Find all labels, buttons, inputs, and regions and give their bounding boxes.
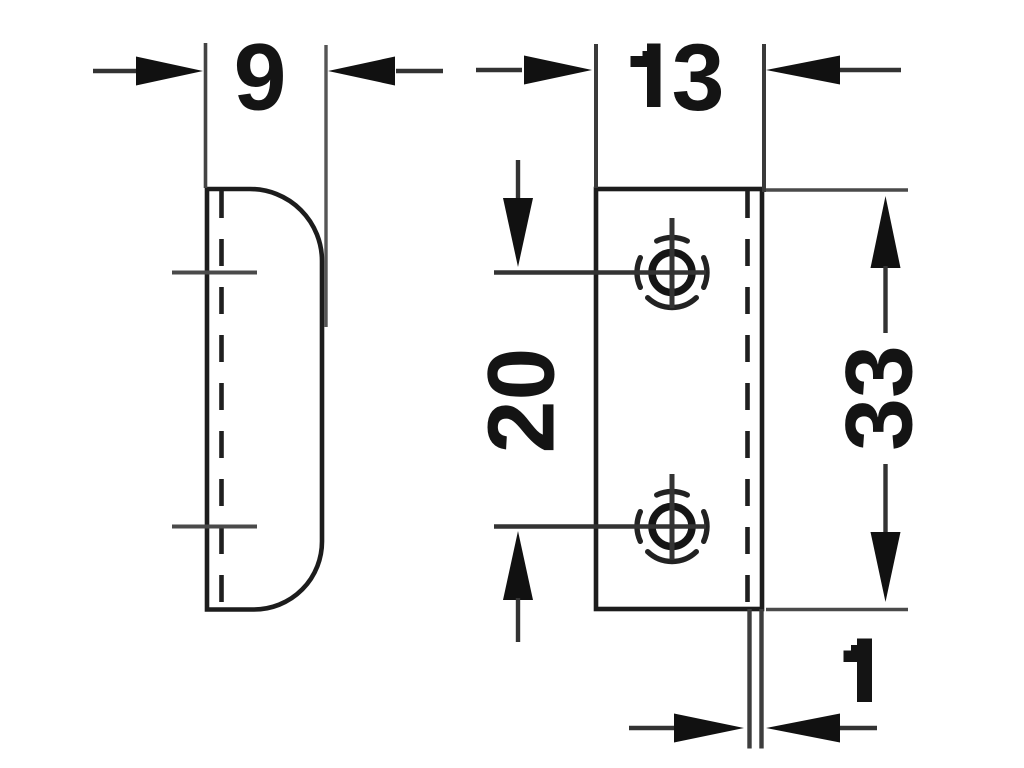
hole H1 vertical centerline: [670, 218, 675, 308]
dim 33: lower arrow (points down): [883, 464, 887, 534]
dim 1: label digit 1 (drawn, Arial-style no foot): [844, 639, 873, 703]
front view plate body: [596, 189, 762, 609]
dim 1: right arrow: [838, 726, 877, 730]
front view hidden bend line (dashed): [745, 191, 750, 608]
hole H2 circle: [652, 507, 692, 547]
dim 1: left arrow: [629, 726, 676, 730]
dim 1: plate edge extension below plate: [759, 609, 763, 749]
dim 9: right extension line: [324, 45, 327, 327]
dim 20: upper arrow (points down): [503, 198, 533, 267]
dim 20: lower arrow (points up): [503, 531, 533, 600]
hole H1 circle: [652, 253, 692, 293]
dim 9: right arrow: [396, 69, 443, 73]
dim 33: bottom extension line: [766, 608, 908, 612]
dim 13: right extension line: [762, 44, 766, 192]
dim 9: left extension line: [204, 43, 208, 188]
dim 20: lower leader line: [516, 598, 520, 642]
hole H2 vertical centerline: [670, 474, 675, 560]
side view outline (left profile of catch plate): [207, 189, 322, 610]
svg-text:9: 9: [234, 25, 287, 131]
dim 20: upper leader line: [516, 160, 520, 201]
hole H2 horizontal centerline / 20-dim extension: [494, 524, 706, 529]
side view hidden edge (dashed line): [219, 191, 224, 608]
dim 9: left arrow: [93, 69, 140, 73]
side view centerline tick, lower hole: [172, 525, 257, 529]
dim 13: left extension line: [594, 44, 598, 188]
dim 1: hidden-line extension below plate: [747, 609, 751, 749]
hole H2 countersink dashed circle arcs: [637, 491, 707, 561]
hole H1 countersink dashed circle arcs: [637, 237, 707, 307]
dim 13: label digit 1 (drawn, Arial-style no foot): [631, 44, 661, 108]
svg-text:20: 20: [469, 348, 575, 454]
dim 33: top extension line: [766, 188, 908, 192]
hole H1 horizontal centerline / 20-dim extension: [494, 270, 706, 275]
dim 33: upper arrow (points up): [871, 196, 901, 268]
svg-text:3: 3: [672, 25, 725, 131]
dim 13: right arrow: [838, 68, 901, 72]
dim 13: left arrow: [476, 68, 522, 72]
side view centerline tick, upper hole: [172, 271, 257, 275]
svg-text:33: 33: [826, 345, 932, 451]
